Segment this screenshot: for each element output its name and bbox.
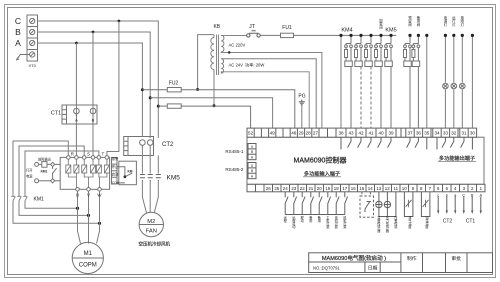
- svg-text:CT1: CT1: [51, 111, 61, 117]
- fuse FU3 on C line: [158, 104, 250, 128]
- svg-text:多功能输出端子: 多功能输出端子: [439, 154, 475, 162]
- svg-text:C: C: [462, 193, 465, 197]
- pressure transducers: [376, 192, 396, 217]
- svg-text:11: 11: [394, 186, 399, 191]
- wire AC24V top to terminal 27: [221, 59, 316, 128]
- svg-text:KM1: KM1: [34, 197, 45, 203]
- svg-text:U: U: [76, 193, 79, 198]
- svg-text:载: 载: [343, 224, 347, 229]
- wire KM1 bypass R: [13, 141, 68, 196]
- svg-text:度: 度: [408, 224, 412, 229]
- svg-text:PG: PG: [298, 94, 305, 100]
- relay coil branch KM5 (terminal 39): [385, 35, 393, 128]
- svg-text:器: 器: [377, 229, 381, 233]
- svg-text:度: 度: [425, 224, 429, 229]
- svg-text:B: B: [471, 193, 474, 197]
- soft starter box: [60, 157, 109, 189]
- svg-text:日期: 日期: [368, 266, 378, 272]
- svg-text:31: 31: [461, 131, 467, 136]
- svg-text:M2: M2: [147, 219, 155, 225]
- transformer core: [217, 35, 219, 76]
- relay coil branch (terminal 41): [365, 35, 373, 128]
- svg-text:用: 用: [318, 219, 321, 223]
- secondary winding AC24V: [221, 59, 223, 73]
- wires KM5 to fan motor: [142, 181, 158, 213]
- node phase B tap: [149, 96, 152, 99]
- svg-text:FU1: FU1: [282, 25, 292, 31]
- svg-text:17: 17: [342, 186, 347, 191]
- wire KM1 bypass S: [19, 146, 84, 196]
- contactor KM5 contacts: [140, 175, 161, 182]
- primary winding: [213, 35, 215, 38]
- svg-text:13: 13: [376, 186, 381, 191]
- svg-text:KM: KM: [128, 169, 133, 173]
- svg-text:W: W: [97, 193, 102, 198]
- svg-text:器: 器: [386, 229, 390, 233]
- wire terminal 35: [426, 35, 428, 128]
- wire KM1 out 1: [13, 201, 100, 223]
- wire phase B: [38, 32, 151, 138]
- wire U to motor: [78, 191, 81, 244]
- wire phase A: [38, 43, 143, 137]
- svg-text:40: 40: [378, 131, 384, 136]
- svg-text:AC 24V: AC 24V: [229, 63, 244, 68]
- fuse FU1: [260, 33, 396, 37]
- relay coil branch (terminal 37): [404, 35, 412, 128]
- svg-text:报警: 报警: [112, 156, 119, 161]
- svg-text:C: C: [15, 16, 21, 26]
- svg-text:打开: 打开: [26, 168, 33, 173]
- input function labels: [284, 215, 430, 233]
- svg-text:B: B: [92, 118, 95, 123]
- svg-text:多功能输入端子: 多功能输入端子: [304, 169, 340, 177]
- svg-text:49: 49: [270, 131, 276, 136]
- svg-text:B: B: [15, 27, 21, 37]
- svg-text:42: 42: [358, 131, 364, 136]
- svg-text:22: 22: [300, 186, 305, 191]
- svg-text:41: 41: [368, 131, 374, 136]
- svg-text:R: R: [71, 151, 74, 156]
- svg-text:A: A: [75, 118, 78, 123]
- svg-text:20: 20: [317, 186, 322, 191]
- svg-text:M1: M1: [84, 251, 93, 257]
- svg-text:灯: 灯: [461, 22, 465, 27]
- svg-text:25: 25: [274, 186, 279, 191]
- svg-text:29: 29: [298, 131, 304, 136]
- svg-text:启动: 启动: [112, 172, 118, 177]
- KM1 coil circuit: [35, 162, 61, 183]
- svg-text:载: 载: [326, 224, 330, 229]
- svg-text:动: 动: [292, 224, 295, 229]
- current transformer CT2: [124, 137, 154, 156]
- svg-text:RS485-1: RS485-1: [225, 149, 244, 154]
- svg-text:JT: JT: [249, 24, 256, 30]
- node AC220V bottom: [228, 51, 231, 54]
- motor M1: [72, 242, 103, 273]
- title block: [309, 253, 493, 273]
- svg-text:32: 32: [451, 131, 457, 136]
- svg-text:NO.:DQT0791: NO.:DQT0791: [313, 266, 340, 271]
- svg-text:COM: COM: [112, 181, 120, 185]
- wire KM1 out 3: [25, 201, 78, 208]
- transformer KB: [211, 35, 322, 129]
- svg-text:功率: 20W: 功率: 20W: [245, 62, 264, 69]
- terminal row top: [247, 128, 477, 137]
- controller MAM6090 box: [247, 137, 484, 184]
- svg-text:制作: 制作: [407, 255, 417, 262]
- svg-text:KM1: KM1: [41, 169, 48, 173]
- relay coil branch KM4 (terminal 43): [345, 35, 353, 128]
- svg-text:36: 36: [416, 131, 422, 136]
- svg-text:CT1: CT1: [466, 219, 476, 225]
- SCR pair phase S: [82, 159, 96, 187]
- svg-text:a: a: [454, 193, 457, 197]
- secondary winding AC220V: [221, 35, 224, 52]
- svg-text:34: 34: [434, 131, 440, 136]
- svg-text:37: 37: [407, 131, 413, 136]
- svg-text:COPM: COPM: [79, 263, 97, 269]
- svg-text:26: 26: [266, 186, 271, 191]
- svg-text:10: 10: [402, 186, 407, 191]
- input switch contacts: [285, 192, 347, 215]
- svg-text:5: 5: [251, 145, 253, 149]
- relay contacts inside controller: [341, 137, 472, 149]
- svg-text:阀: 阀: [417, 22, 421, 27]
- node rail 38: [339, 34, 342, 37]
- SCR pair phase R: [66, 159, 79, 187]
- contactor KM1 main contacts: [11, 196, 27, 202]
- svg-text:39: 39: [388, 131, 394, 136]
- relay coil branch (terminal 40): [375, 35, 383, 128]
- svg-text:RS485-2: RS485-2: [225, 167, 244, 172]
- svg-text:27: 27: [313, 131, 319, 136]
- CT secondary leads: [438, 197, 481, 212]
- svg-text:MAM6090电气图(软启动 ): MAM6090电气图(软启动 ): [322, 254, 386, 262]
- node V junction: [87, 214, 90, 217]
- RS485 terminal strip 1: [248, 144, 256, 160]
- switch JT: [247, 31, 261, 37]
- svg-text:21: 21: [308, 186, 313, 191]
- svg-text:阀: 阀: [379, 24, 383, 29]
- node B-S: [92, 31, 95, 34]
- fuse FU2 on A line: [142, 88, 294, 129]
- svg-text:b: b: [446, 193, 448, 197]
- svg-text:24: 24: [283, 186, 288, 191]
- svg-text:FAN: FAN: [146, 229, 157, 235]
- svg-text:KM5: KM5: [385, 28, 396, 34]
- node phase C tap: [157, 105, 160, 108]
- svg-text:故障输出: 故障输出: [38, 156, 51, 161]
- pressure switch (dashed option): [360, 192, 374, 218]
- svg-text:T: T: [102, 151, 105, 156]
- svg-text:审批: 审批: [451, 255, 461, 262]
- svg-text:43: 43: [348, 131, 354, 136]
- svg-text:动: 动: [301, 218, 304, 223]
- svg-text:灯: 灯: [452, 22, 456, 27]
- XT0 ground lead: [16, 55, 29, 61]
- svg-text:19: 19: [325, 186, 330, 191]
- svg-text:12: 12: [385, 186, 390, 191]
- node primary bottom: [213, 104, 216, 107]
- node phase A tap: [141, 88, 144, 91]
- svg-text:载: 载: [335, 224, 339, 229]
- lamp HL3 (terminal 31): [460, 35, 466, 128]
- svg-text:33: 33: [443, 131, 449, 136]
- soft starter control terminal strip: [112, 158, 118, 185]
- wire B to terminal 49: [150, 98, 272, 128]
- node U junction: [76, 207, 79, 210]
- svg-text:停止: 停止: [112, 164, 119, 169]
- wire primary top lead: [198, 35, 214, 90]
- motor M2 fan: [139, 212, 163, 236]
- svg-text:5: 5: [251, 164, 253, 168]
- svg-text:16: 16: [351, 186, 356, 191]
- svg-text:18: 18: [334, 186, 339, 191]
- svg-text:KM4: KM4: [341, 28, 352, 34]
- relay coil branch (terminal 42): [355, 35, 363, 128]
- svg-text:MAM6090控制器: MAM6090控制器: [294, 156, 347, 165]
- wire AC24V bottom to terminal 28: [221, 72, 309, 128]
- svg-text:AC 220V: AC 220V: [229, 43, 246, 48]
- temperature sensor 2: [421, 192, 430, 217]
- wire A to R input: [75, 43, 77, 157]
- svg-text:52: 52: [248, 131, 254, 136]
- svg-text:电源: 电源: [26, 174, 33, 179]
- svg-text:14: 14: [368, 186, 373, 191]
- svg-text:A: A: [480, 193, 483, 197]
- ground PG: [299, 100, 305, 129]
- wire KM1 bypass T: [25, 151, 99, 196]
- wires through CT2 down: [142, 148, 158, 174]
- lamp HL1 (terminal 33): [443, 35, 449, 128]
- svg-text:28: 28: [306, 131, 312, 136]
- svg-text:46: 46: [291, 131, 297, 136]
- node C-T: [118, 20, 121, 23]
- svg-text:XT0: XT0: [29, 63, 37, 68]
- node primary-FU2: [196, 88, 199, 91]
- relay coil branch (terminal 36): [412, 35, 420, 128]
- svg-text:阀: 阀: [408, 22, 412, 27]
- current transformer CT1: [62, 105, 97, 124]
- svg-text:FU2: FU2: [169, 81, 179, 87]
- terminal row bottom: [247, 184, 485, 192]
- soft starter input terminals: [67, 156, 109, 160]
- wire KM1 out 2: [19, 201, 89, 215]
- svg-text:KM5: KM5: [167, 175, 181, 182]
- svg-text:A: A: [15, 38, 21, 48]
- svg-text:CT2: CT2: [162, 142, 174, 148]
- wire phase C: [38, 21, 159, 138]
- svg-text:感: 感: [394, 224, 398, 229]
- wire B to S input: [92, 32, 94, 157]
- lamp HL2 (terminal 32): [451, 35, 457, 128]
- svg-text:程: 程: [284, 218, 288, 223]
- node A-R: [75, 42, 78, 45]
- svg-text:15: 15: [359, 186, 364, 191]
- svg-text:c: c: [437, 193, 439, 197]
- terminal block XT0: [27, 15, 38, 61]
- svg-text:23: 23: [291, 186, 296, 191]
- svg-text:30: 30: [470, 131, 476, 136]
- svg-text:CT2: CT2: [443, 219, 453, 225]
- vertical labels above branches: [379, 15, 464, 29]
- wire terminal 30: [471, 35, 473, 128]
- svg-text:灯: 灯: [444, 22, 448, 27]
- soft starter output terminals U V W: [76, 188, 102, 192]
- svg-text:KB: KB: [213, 24, 220, 30]
- KM aux contact box: [117, 161, 136, 185]
- svg-text:35: 35: [424, 131, 430, 136]
- SCR pair phase T: [96, 159, 109, 187]
- svg-text:用: 用: [309, 219, 312, 223]
- wire terminal 38 to rail: [340, 35, 342, 128]
- node W junction: [98, 222, 101, 225]
- wire V to motor: [88, 191, 90, 244]
- svg-text:V: V: [87, 193, 90, 198]
- RS485 terminal strip 2: [248, 163, 256, 179]
- temperature sensor 1: [404, 192, 413, 217]
- svg-text:空压机冷却风机: 空压机冷却风机: [139, 241, 171, 248]
- svg-text:S: S: [87, 151, 90, 156]
- svg-text:38: 38: [338, 131, 344, 136]
- wire W to motor: [97, 191, 100, 244]
- wire C to T input: [107, 21, 119, 157]
- labels left section: [15, 16, 21, 48]
